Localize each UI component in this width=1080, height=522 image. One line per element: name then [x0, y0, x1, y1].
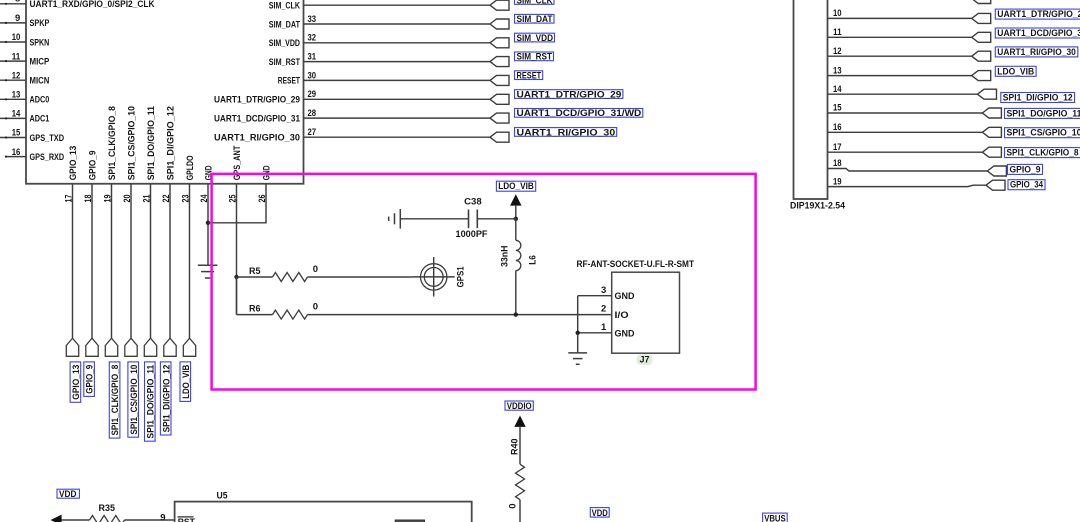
J7 pin1 stub: [578, 332, 612, 334]
svg-text:1: 1: [601, 322, 607, 333]
wire L6-node2: [515, 271, 517, 315]
svg-text:L6: L6: [527, 255, 538, 265]
pin 16 wire: [6, 156, 26, 158]
net wire RESET: [304, 79, 491, 81]
svg-text:I/O: I/O: [615, 310, 629, 321]
DIP pin 13 wire: [828, 75, 972, 77]
net label SPI1_DO/GPIO_11: [145, 362, 156, 441]
DIP net flag UART1_RI/GPIO_30: [972, 51, 991, 61]
svg-text:LDO_VIB: LDO_VIB: [181, 365, 192, 399]
net label SIM_CLK: [515, 0, 555, 4]
svg-text:SPI1_CLK/GPIO_8: SPI1_CLK/GPIO_8: [1007, 148, 1079, 159]
net label UART1_DTR/GPIO_29: [515, 90, 623, 99]
net label RESET: [515, 71, 543, 80]
svg-text:SPI1_DO/GPIO_11: SPI1_DO/GPIO_11: [1007, 108, 1080, 119]
svg-text:GPIO_9: GPIO_9: [1010, 164, 1041, 175]
svg-text:16: 16: [12, 147, 21, 158]
net label SPI1_DI/GPIO_12: [160, 362, 171, 435]
svg-text:UART1_DCD/GPIO_31/WD: UART1_DCD/GPIO_31/WD: [517, 108, 642, 119]
svg-text:30: 30: [308, 70, 317, 81]
net flag LDO_VIB: [183, 338, 195, 356]
power label VDDIO: [505, 401, 533, 410]
svg-text:GPIO_13: GPIO_13: [71, 365, 82, 400]
svg-text:R5: R5: [249, 266, 261, 277]
svg-text:SPI1_DO/GPIO_11: SPI1_DO/GPIO_11: [146, 105, 157, 180]
net label SPI1_CS/GPIO_10: [128, 362, 139, 437]
svg-text:SPI1_CS/GPIO_10: SPI1_CS/GPIO_10: [126, 106, 137, 180]
pin 8 wire: [0, 3, 26, 5]
DIP net flag SPI1_CLK/GPIO_8: [982, 147, 1001, 157]
DIP pin 15 wire: [828, 112, 983, 114]
J7 pin3 stub: [578, 295, 612, 297]
connector DIP19 body: [794, 0, 828, 199]
net wire UART1_RI/GPIO_30: [304, 136, 491, 138]
svg-text:RESET: RESET: [278, 76, 300, 87]
svg-text:GPS_TXD: GPS_TXD: [30, 133, 65, 144]
wire pin 18: [91, 184, 93, 338]
svg-text:10: 10: [833, 8, 842, 19]
svg-text:SIM_VDD: SIM_VDD: [517, 33, 554, 44]
net label SIM_RST: [515, 52, 554, 61]
svg-text:SPI1_DO/GPIO_11: SPI1_DO/GPIO_11: [145, 364, 156, 439]
designator J7: [637, 354, 653, 365]
svg-text:12: 12: [833, 46, 842, 57]
svg-text:UART1_RXD/GPIO_0/SPI2_CLK: UART1_RXD/GPIO_0/SPI2_CLK: [30, 0, 155, 10]
inductor L6 coil: [516, 240, 521, 270]
wire R40-bottom: [519, 500, 521, 522]
svg-text:ADC1: ADC1: [30, 114, 50, 125]
net flag RESET: [490, 75, 509, 85]
module U5 body: [175, 502, 472, 522]
svg-text:RESET: RESET: [517, 71, 542, 82]
net wire SIM_VDD: [304, 42, 491, 44]
svg-text:0: 0: [313, 302, 318, 313]
svg-text:10: 10: [12, 32, 21, 43]
svg-text:GPIO_13: GPIO_13: [68, 146, 79, 181]
net label LDO_VIB: [180, 362, 191, 402]
net label UART1_DCD/GPIO_31/WD: [515, 109, 643, 118]
DIP net label LDO_VIB: [995, 66, 1036, 76]
capacitor C38 plates: [468, 210, 470, 229]
wire pin 25 GPS_ANT: [236, 184, 238, 315]
svg-text:SIM_VDD: SIM_VDD: [269, 38, 300, 49]
DIP pin 18 wire: [828, 169, 988, 172]
svg-text:MICP: MICP: [30, 56, 50, 67]
DIP net flag SPI1_DO/GPIO_11: [982, 108, 1001, 118]
wire node-L6: [515, 219, 517, 241]
svg-text:UART1_RI/GPIO_30: UART1_RI/GPIO_30: [997, 47, 1076, 58]
wire to R6: [237, 314, 273, 316]
svg-text:17: 17: [833, 142, 842, 153]
svg-text:RF-ANT-SOCKET-U.FL-R-SMT: RF-ANT-SOCKET-U.FL-R-SMT: [577, 259, 695, 270]
svg-text:SPI1_CLK/GPIO_8: SPI1_CLK/GPIO_8: [110, 365, 121, 436]
svg-text:SIM_RST: SIM_RST: [269, 57, 300, 68]
power label VDD bottom: [590, 508, 609, 517]
DIP net label SPI1_DI/GPIO_12: [1001, 93, 1075, 103]
DIP net label SPI1_CS/GPIO_10: [1005, 128, 1080, 138]
wire pin 26 GND: [208, 184, 266, 223]
svg-text:2: 2: [601, 304, 606, 315]
svg-text:3: 3: [601, 285, 606, 296]
wire pin 19: [111, 184, 113, 338]
svg-text:SPI1_CLK/GPIO_8: SPI1_CLK/GPIO_8: [107, 106, 118, 180]
svg-text:12: 12: [12, 70, 21, 81]
svg-text:DIP19X1-2.54: DIP19X1-2.54: [790, 200, 846, 211]
wire pin 21: [150, 184, 152, 338]
testpoint GPS1 circles: [421, 264, 447, 290]
net flag UART1_RI/GPIO_30: [490, 132, 509, 142]
svg-text:SPKP: SPKP: [30, 18, 50, 29]
svg-text:11: 11: [833, 27, 842, 38]
net label SIM_DAT: [515, 14, 555, 23]
wire gnd-C38: [400, 218, 468, 220]
resistor R5: [273, 273, 308, 282]
svg-text:VDD: VDD: [59, 489, 77, 500]
DIP net label UART1_RI/GPIO_30: [995, 47, 1078, 57]
svg-text:UART1_DTR/GPIO_29: UART1_DTR/GPIO_29: [997, 9, 1080, 20]
svg-text:9: 9: [160, 513, 165, 522]
J7 gnd vertical: [577, 296, 579, 353]
svg-text:32: 32: [308, 33, 317, 44]
net flag SPI1_CS/GPIO_10: [125, 338, 137, 356]
junction dot R5: [234, 275, 238, 279]
svg-text:C38: C38: [464, 196, 482, 207]
net label GPIO_13: [70, 362, 81, 402]
svg-text:15: 15: [12, 128, 21, 139]
svg-text:ADC0: ADC0: [30, 95, 50, 106]
power label VBUS: [763, 513, 788, 522]
wire R5node-R6: [236, 277, 238, 315]
net wire SIM_RST: [304, 61, 491, 63]
net wire UART1_DTR/GPIO_29: [304, 98, 491, 100]
net flag UART1_DTR/GPIO_29: [490, 94, 509, 104]
svg-text:VBUS: VBUS: [764, 513, 786, 522]
svg-text:28: 28: [308, 108, 317, 119]
svg-text:1000PF: 1000PF: [456, 229, 488, 240]
power arrow VDDIO: [514, 416, 525, 427]
svg-text:SIM_CLK: SIM_CLK: [517, 0, 553, 6]
wire pin 20: [130, 184, 132, 338]
net flag SPI1_CLK/GPIO_8: [105, 338, 117, 356]
svg-text:27: 27: [308, 127, 317, 138]
net flag SIM_DAT: [490, 19, 509, 29]
pin 11 wire: [0, 60, 26, 62]
wire C38-node: [477, 218, 516, 220]
highlight selection rectangle: [212, 174, 756, 390]
DIP pin 12 wire: [828, 55, 972, 57]
DIP pin 10 wire: [828, 17, 972, 19]
testpoint GPS1 cross: [433, 257, 435, 297]
power label VDD left: [57, 489, 79, 498]
power flag LDO_VIB arrow: [510, 194, 521, 205]
net flag SPI1_DI/GPIO_12: [164, 338, 176, 356]
svg-text:SIM_DAT: SIM_DAT: [269, 19, 300, 30]
svg-text:11: 11: [12, 51, 21, 62]
IC U4 GSM/GPS module body: [26, 0, 304, 184]
net flag GPIO_9: [86, 338, 98, 356]
wire VDD-R35: [61, 519, 89, 521]
svg-text:VDDIO: VDDIO: [507, 401, 532, 412]
svg-text:UART1_DTR/GPIO_29: UART1_DTR/GPIO_29: [517, 89, 622, 100]
pin 9 wire: [0, 22, 26, 24]
pin 15 wire: [0, 137, 26, 139]
net flag SIM_RST: [490, 57, 509, 67]
pin 14 wire: [0, 117, 26, 119]
svg-text:SPKN: SPKN: [30, 37, 50, 48]
DIP net flag GPIO_34: [986, 180, 1005, 190]
svg-text:LDO_VIB: LDO_VIB: [997, 66, 1034, 77]
svg-text:29: 29: [308, 89, 317, 100]
power flag LDO_VIB label: [496, 181, 535, 191]
svg-text:R40: R40: [509, 438, 520, 455]
svg-text:R35: R35: [99, 503, 116, 514]
svg-text:GND: GND: [615, 329, 635, 340]
DIP net label UART1_DCD/GPIO_31/WD: [995, 28, 1080, 38]
wire R35-U5: [125, 519, 175, 521]
svg-text:SIM_CLK: SIM_CLK: [269, 1, 300, 12]
svg-text:UART1_DCD/GPIO_31: UART1_DCD/GPIO_31: [214, 113, 301, 124]
svg-text:SIM_RST: SIM_RST: [517, 52, 553, 63]
net label UART1_RI/GPIO_30: [515, 128, 617, 137]
svg-text:9: 9: [15, 13, 20, 24]
net label GPIO_9: [84, 362, 95, 397]
net flag GPIO_13: [66, 338, 78, 356]
pin 10 wire: [0, 41, 26, 43]
DIP net flag SPI1_CS/GPIO_10: [982, 127, 1001, 137]
svg-text:18: 18: [833, 158, 842, 169]
wire pin 24 GND: [207, 184, 209, 265]
power arrow VDD: [51, 515, 62, 522]
svg-text:33nH: 33nH: [499, 245, 510, 267]
DIP pin 11 wire: [828, 36, 972, 38]
junction dot L6/R6: [514, 312, 518, 316]
resistor R40: [516, 464, 525, 500]
DIP net flag UART1_DTR/GPIO_29: [972, 13, 991, 23]
svg-text:VDD: VDD: [592, 508, 608, 519]
net flag partial top: [972, 0, 991, 4]
net flag UART1_DCD/GPIO_31/WD: [490, 113, 509, 123]
net flag SIM_VDD: [490, 38, 509, 48]
svg-text:GPIO_9: GPIO_9: [87, 151, 98, 181]
svg-text:U5: U5: [217, 490, 229, 501]
wire R6-J7: [308, 314, 612, 316]
DIP net flag SPI1_DI/GPIO_12: [978, 89, 997, 99]
svg-text:GND: GND: [615, 291, 635, 302]
ground left of C38: [399, 209, 401, 229]
wire pin 22: [169, 184, 171, 338]
wire R5-GPS1: [308, 276, 413, 278]
wire pin 17: [72, 184, 74, 338]
DIP net label UART1_DTR/GPIO_29: [995, 9, 1080, 19]
svg-text:SPI1_DI/GPIO_12: SPI1_DI/GPIO_12: [161, 365, 172, 433]
svg-text:33: 33: [308, 14, 317, 25]
junction dot J7 pin1: [576, 331, 580, 335]
svg-text:15: 15: [833, 103, 842, 114]
wire LDO_VIB: [515, 206, 517, 219]
ground J7: [568, 352, 587, 354]
svg-text:R6: R6: [249, 304, 261, 315]
DIP net flag UART1_DCD/GPIO_31/WD: [972, 32, 991, 42]
pin 12 wire: [0, 79, 26, 81]
svg-text:SPI1_DI/GPIO_12: SPI1_DI/GPIO_12: [1003, 93, 1073, 104]
svg-text:RST: RST: [178, 517, 195, 522]
svg-text:SPI1_CS/GPIO_10: SPI1_CS/GPIO_10: [129, 365, 140, 435]
net label SPI1_CLK/GPIO_8: [109, 362, 120, 438]
DIP net label GPIO_9: [1008, 164, 1043, 174]
svg-text:LDO_VIB: LDO_VIB: [498, 181, 534, 192]
svg-text:0: 0: [508, 503, 519, 508]
junction dot pin24/26: [206, 221, 210, 225]
svg-text:GPIO_34: GPIO_34: [1010, 180, 1044, 191]
svg-text:GPIO_9: GPIO_9: [85, 365, 96, 394]
resistor R6: [273, 310, 308, 319]
svg-text:16: 16: [833, 122, 842, 133]
svg-text:UART1_DCD/GPIO_31/WD: UART1_DCD/GPIO_31/WD: [997, 28, 1080, 39]
svg-text:31: 31: [308, 52, 317, 63]
net flag SPI1_DO/GPIO_11: [144, 338, 156, 356]
svg-text:0: 0: [313, 264, 318, 275]
svg-text:GPS_RXD: GPS_RXD: [30, 152, 65, 163]
ground pin24: [198, 264, 218, 266]
net wire SIM_DAT: [304, 23, 491, 25]
net wire UART1_DCD/GPIO_31/WD: [304, 117, 491, 119]
svg-text:SPI1_CS/GPIO_10: SPI1_CS/GPIO_10: [1007, 128, 1080, 139]
connector J7 body: [612, 272, 680, 353]
svg-text:UART1_DTR/GPIO_29: UART1_DTR/GPIO_29: [214, 95, 300, 106]
DIP net label SPI1_DO/GPIO_11: [1005, 108, 1080, 118]
DIP net flag GPIO_9: [987, 166, 1006, 176]
wire VDDIO-R40: [519, 427, 521, 464]
svg-text:19: 19: [833, 176, 842, 187]
DIP pin 16 wire: [828, 131, 983, 133]
svg-text:MICN: MICN: [30, 76, 50, 87]
net flag SIM_CLK: [490, 0, 509, 10]
svg-text:GPS1: GPS1: [455, 266, 466, 288]
net label SIM_VDD: [515, 33, 555, 42]
svg-text:14: 14: [833, 84, 842, 95]
svg-text:UART1_RI/GPIO_30: UART1_RI/GPIO_30: [517, 127, 616, 138]
DIP net label GPIO_34: [1008, 180, 1045, 190]
svg-text:SIM_DAT: SIM_DAT: [517, 14, 553, 25]
DIP pin 14 wire: [828, 93, 978, 95]
DIP pin 19 wire: [828, 185, 987, 186]
svg-text:14: 14: [12, 109, 21, 120]
wire gpsant-R5: [237, 276, 273, 278]
svg-text:13: 13: [12, 90, 21, 101]
svg-text:SPI1_DI/GPIO_12: SPI1_DI/GPIO_12: [165, 106, 176, 180]
net wire SIM_CLK: [304, 4, 491, 6]
DIP pin 17 wire: [828, 151, 983, 153]
pin 13 wire: [0, 98, 26, 100]
U5 inner dark box: [395, 520, 424, 522]
junction node LDO_VIB: [514, 217, 518, 221]
svg-text:UART1_RI/GPIO_30: UART1_RI/GPIO_30: [214, 133, 300, 144]
DIP net label SPI1_CLK/GPIO_8: [1005, 148, 1080, 158]
svg-text:J7: J7: [640, 355, 650, 366]
DIP net flag LDO_VIB: [972, 71, 991, 81]
svg-text:13: 13: [833, 65, 842, 76]
wire pin 23: [189, 184, 191, 338]
resistor R35: [90, 516, 125, 522]
svg-text:GPLDO: GPLDO: [185, 156, 196, 181]
svg-text:8: 8: [15, 0, 20, 5]
